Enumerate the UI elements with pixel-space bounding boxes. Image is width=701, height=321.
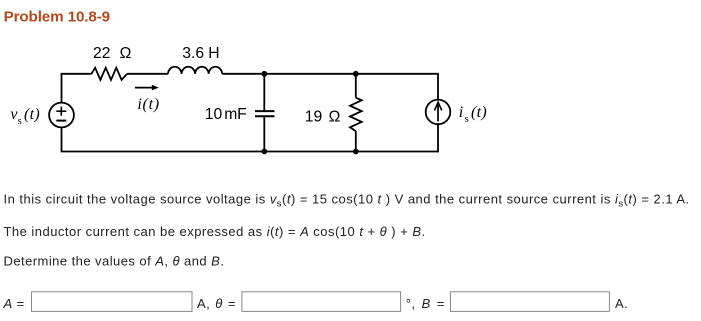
inductor L1 3.6 H coil (168, 67, 222, 74)
voltage source minus sign (56, 120, 66, 122)
current source U2 arrowhead (435, 102, 442, 110)
resistor R2 19 ohm zigzag (350, 98, 362, 131)
svg-text:Problem 10.8-9: Problem 10.8-9 (4, 8, 110, 25)
wire 19 ohm branch lower lead (355, 131, 357, 151)
wire capacitor branch upper lead (263, 74, 265, 110)
wire left vertical upper (vs top lead) (61, 74, 63, 103)
svg-text:22: 22 (93, 45, 110, 62)
wire left vertical lower (vs bottom lead) (61, 127, 63, 151)
svg-text:10: 10 (205, 106, 223, 123)
answer input box theta (242, 292, 401, 312)
wire top segment from vs to R1 (61, 73, 92, 75)
svg-text:In this circuit the voltage so: In this circuit the voltage source volta… (4, 192, 690, 210)
svg-text:Ω: Ω (329, 108, 341, 125)
svg-text:vs(t): vs(t) (10, 106, 40, 127)
svg-text:A, θ =: A, θ = (197, 296, 236, 311)
current source U2 circle (426, 100, 451, 125)
wire top segment from R1 to L1 (127, 73, 168, 75)
wire bottom rail (61, 151, 438, 153)
answer input box B (450, 292, 609, 312)
voltage source U1 circle (49, 103, 74, 128)
svg-text:°, B =: °, B = (406, 296, 445, 311)
current arrow i(t) shaft (135, 87, 153, 89)
current arrow i(t) head (152, 85, 159, 91)
svg-text:Ω: Ω (120, 45, 132, 62)
current source U2 arrow shaft (437, 103, 439, 122)
wire 19 ohm branch upper lead (355, 74, 357, 98)
answer input box A (32, 292, 193, 312)
junction node dot bottom 19 ohm (353, 149, 359, 155)
capacitor C1 top plate (255, 110, 275, 112)
wire top segment from L1 to right corner (222, 73, 438, 75)
wire capacitor branch lower lead (263, 117, 265, 151)
junction node dot top capacitor (261, 71, 267, 77)
svg-text:H: H (208, 45, 219, 62)
junction node dot bottom capacitor (261, 149, 267, 155)
voltage source plus sign (56, 107, 66, 116)
junction node dot top 19 ohm (353, 71, 359, 77)
capacitor C1 bottom plate (255, 115, 275, 117)
svg-text:19: 19 (305, 108, 322, 125)
wire right vertical upper (is top lead) (437, 73, 439, 100)
svg-text:3.6: 3.6 (182, 45, 204, 62)
wire right vertical lower (is bottom lead) (437, 124, 439, 152)
svg-text:is(t): is(t) (459, 104, 487, 125)
svg-text:A =: A = (3, 296, 25, 311)
svg-text:i(t): i(t) (137, 96, 159, 113)
svg-text:The inductor current can be ex: The inductor current can be expressed as… (4, 224, 426, 239)
svg-text:A.: A. (615, 296, 628, 311)
resistor R1 22 ohm zigzag (92, 68, 128, 80)
svg-text:mF: mF (224, 106, 246, 123)
svg-text:Determine the values of A, θ a: Determine the values of A, θ and B. (4, 254, 225, 269)
